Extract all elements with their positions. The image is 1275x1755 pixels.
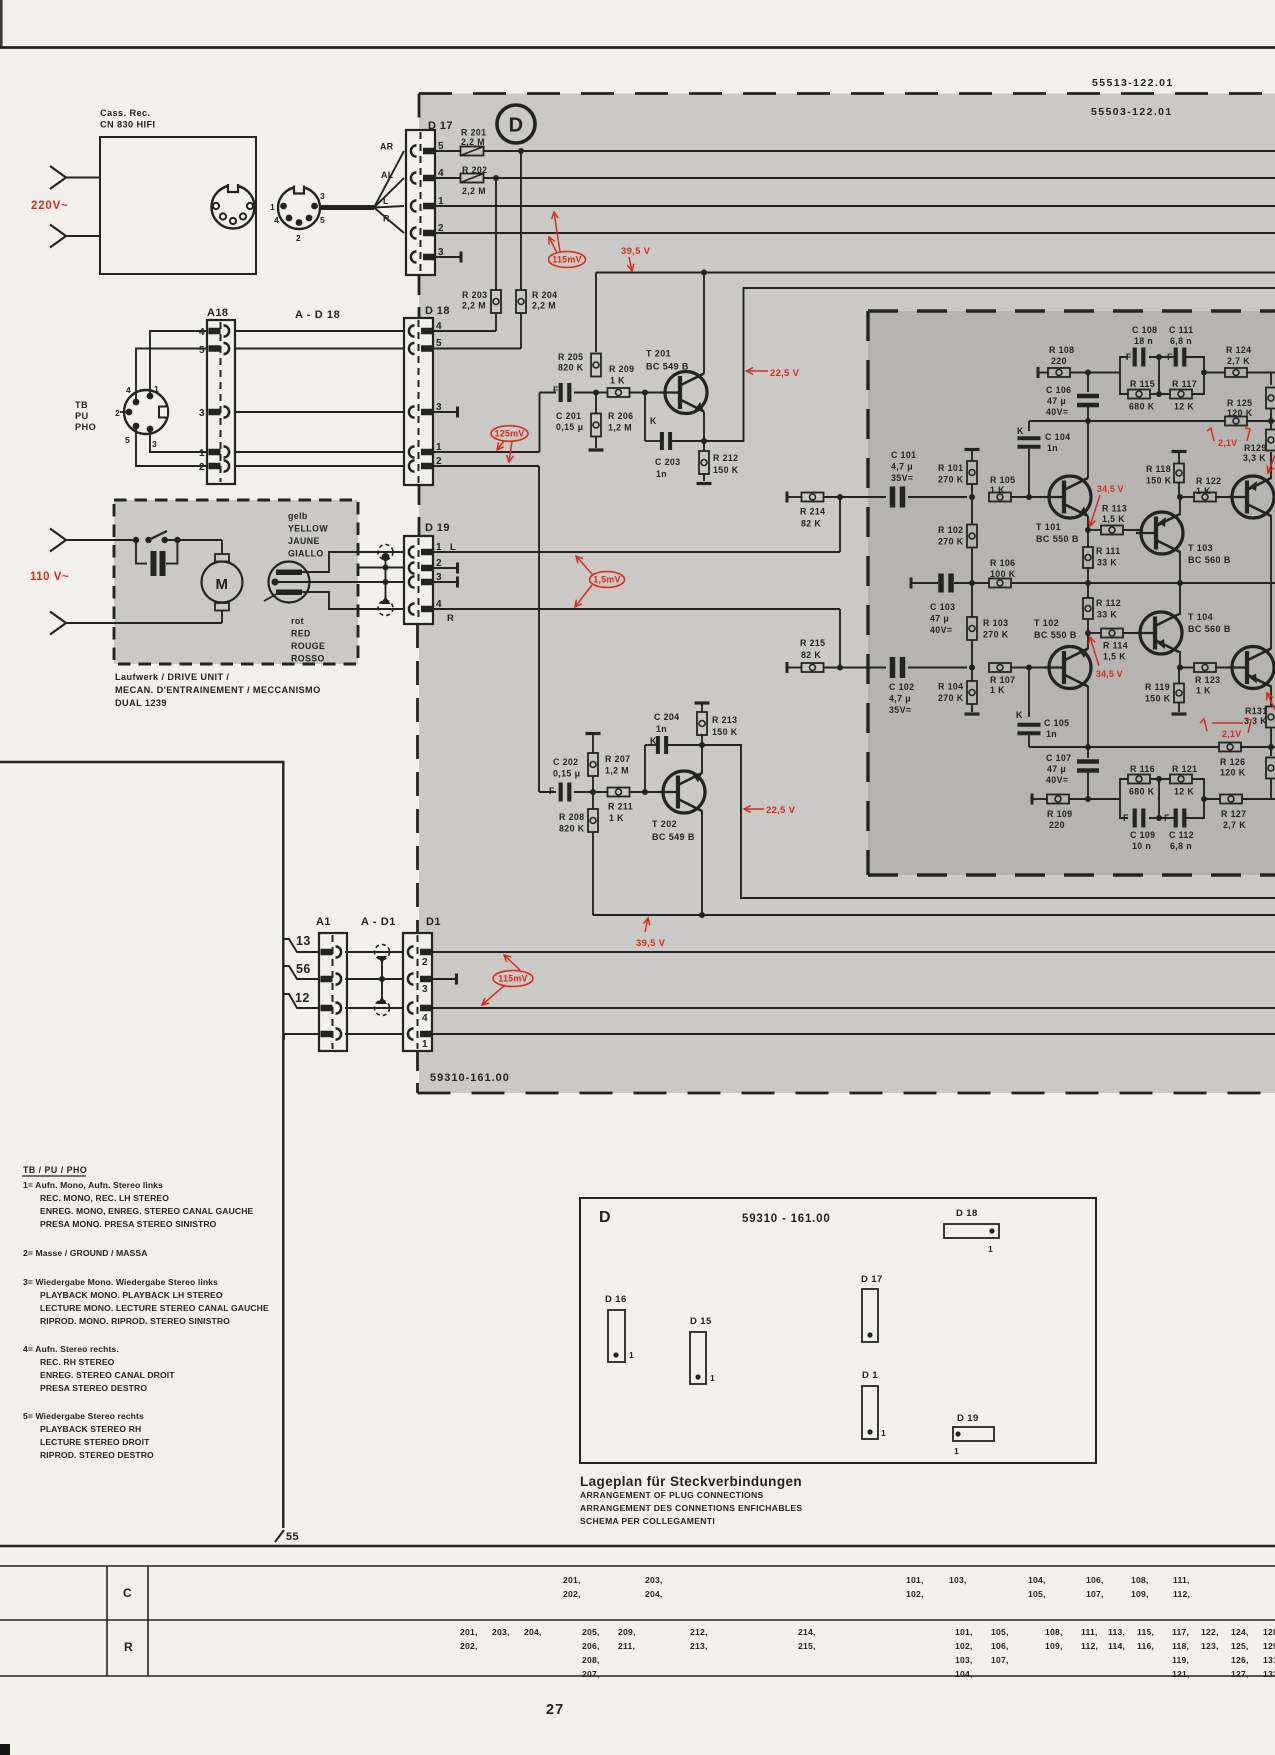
node on pin5 wire: [518, 148, 524, 154]
svg-text:103,: 103,: [949, 1575, 967, 1585]
svg-text:120 K: 120 K: [1227, 408, 1253, 418]
svg-text:1: 1: [199, 448, 205, 459]
svg-text:Lageplan für Steckverbindunge: Lageplan für Steckverbindungen: [580, 1474, 802, 1489]
svg-text:R 215: R 215: [800, 638, 825, 648]
svg-text:1 K: 1 K: [1196, 686, 1211, 696]
R213 150K from supply stub: [695, 701, 738, 745]
wire rail to T106: [1270, 583, 1272, 649]
2.1V upper callout: [1207, 428, 1275, 473]
svg-text:4: 4: [422, 1013, 428, 1024]
wire D1 pin2 out: [431, 951, 1275, 953]
cable shield symbol: [375, 945, 390, 1016]
wire 39.5V rail lower: [593, 914, 1275, 916]
phase capacitor across switch: [136, 540, 177, 576]
yellow lead: [302, 552, 404, 572]
EQ network wiring lower: [1120, 776, 1207, 821]
svg-text:Laufwerk / DRIVE UNIT /: Laufwerk / DRIVE UNIT /: [115, 672, 229, 682]
C203 1n: [645, 393, 704, 480]
C103 47u label: [930, 602, 955, 635]
svg-text:BC 550 B: BC 550 B: [1034, 630, 1077, 640]
C202 0.15u: [549, 757, 580, 802]
svg-text:L: L: [383, 196, 389, 206]
svg-text:3: 3: [152, 439, 157, 449]
R211 1K: [608, 788, 634, 824]
svg-text:209,: 209,: [618, 1627, 636, 1637]
C108 18n: [1126, 325, 1157, 367]
svg-text:R 117: R 117: [1172, 379, 1197, 389]
svg-text:PRESA MONO. PRESA STEREO SINI: PRESA MONO. PRESA STEREO SINISTRO: [40, 1219, 217, 1229]
svg-text:270 K: 270 K: [983, 630, 1009, 640]
DIN plug with pin numbers: [270, 185, 325, 243]
R122 1K: [1180, 476, 1234, 502]
svg-text:150 K: 150 K: [712, 727, 738, 737]
svg-text:BC 560 B: BC 560 B: [1188, 555, 1231, 565]
D18 pin3 stub: [433, 407, 459, 418]
svg-text:R 125: R 125: [1227, 398, 1252, 408]
svg-text:BC 560 B: BC 560 B: [1188, 624, 1231, 634]
svg-text:2,1V: 2,1V: [1218, 438, 1237, 448]
svg-text:106,: 106,: [1086, 1575, 1104, 1585]
pin3 stub with terminator: [433, 252, 463, 263]
svg-text:D1: D1: [426, 916, 441, 928]
svg-text:128,: 128,: [1263, 1627, 1275, 1637]
T202 BC549B: [652, 771, 705, 842]
svg-text:1,5 K: 1,5 K: [1102, 514, 1125, 524]
wire T201 emitter down: [703, 412, 705, 442]
motor switch: [114, 531, 222, 543]
D18 connector: [404, 305, 450, 485]
svg-text:124,: 124,: [1231, 1627, 1249, 1637]
svg-text:1,2 M: 1,2 M: [608, 423, 632, 433]
svg-text:K: K: [1017, 426, 1024, 436]
svg-text:1: 1: [988, 1244, 993, 1254]
svg-text:105,: 105,: [1028, 1589, 1046, 1599]
svg-text:110 V~: 110 V~: [30, 571, 69, 583]
svg-text:5: 5: [436, 338, 442, 349]
wire T106 emitter down: [1270, 686, 1272, 706]
svg-text:AL: AL: [381, 170, 394, 180]
svg-text:4,7 μ: 4,7 μ: [889, 694, 911, 704]
feedback rail: [910, 574, 1275, 593]
svg-text:PLAYBACK MONO. PLAYBACK LH STE: PLAYBACK MONO. PLAYBACK LH STEREO: [40, 1290, 223, 1300]
DIN socket symbol: [212, 184, 255, 229]
wire rail to T104 top: [1179, 583, 1181, 615]
svg-text:R 121: R 121: [1172, 764, 1197, 774]
right channel input wire: [433, 609, 840, 668]
svg-text:rot: rot: [291, 616, 304, 626]
svg-text:R 214: R 214: [800, 507, 825, 517]
svg-text:BC 550 B: BC 550 B: [1036, 534, 1079, 544]
svg-text:10 n: 10 n: [1132, 841, 1151, 851]
svg-text:C 101: C 101: [891, 450, 916, 460]
svg-text:A - D 18: A - D 18: [295, 309, 340, 321]
R121 12K: [1170, 764, 1197, 797]
wire T102 collector down: [1087, 686, 1089, 747]
svg-text:3: 3: [438, 247, 444, 258]
R104 270K to ground: [938, 668, 980, 716]
svg-text:3: 3: [422, 984, 428, 995]
svg-text:4: 4: [126, 385, 131, 395]
svg-text:R 207: R 207: [605, 754, 630, 764]
svg-text:108,: 108,: [1131, 1575, 1149, 1585]
svg-text:SCHEMA PER COLLEGAMENTI: SCHEMA PER COLLEGAMENTI: [580, 1516, 715, 1526]
svg-text:1 K: 1 K: [609, 813, 624, 823]
svg-text:R 109: R 109: [1047, 809, 1072, 819]
svg-text:2: 2: [422, 957, 428, 968]
svg-text:129,: 129,: [1263, 1641, 1275, 1651]
svg-text:R 114: R 114: [1103, 641, 1128, 651]
wire T102 emitter up: [1087, 633, 1089, 649]
svg-text:C 108: C 108: [1132, 325, 1157, 335]
drive unit dashed box: [114, 500, 358, 664]
svg-text:C 102: C 102: [889, 682, 914, 692]
svg-text:2,7 K: 2,7 K: [1227, 356, 1250, 366]
svg-text:3: 3: [320, 191, 325, 201]
svg-text:ENREG. STEREO CANAL DROIT: ENREG. STEREO CANAL DROIT: [40, 1370, 175, 1380]
C102 4.7u input cap R: [868, 657, 975, 715]
module dashed outline: [418, 94, 1275, 1094]
svg-text:112,: 112,: [1173, 1589, 1190, 1599]
svg-text:202,: 202,: [460, 1641, 478, 1651]
svg-text:1: 1: [270, 202, 275, 212]
svg-text:R 115: R 115: [1130, 379, 1155, 389]
R114 1.5K: [1088, 629, 1139, 662]
top page border line: [0, 46, 1275, 49]
svg-text:202,: 202,: [563, 1589, 581, 1599]
39.5V callout: [621, 246, 651, 271]
svg-text:1: 1: [954, 1446, 959, 1456]
R109 feed stub: [1031, 794, 1048, 805]
R202 2.2M on pin4 wire: [461, 165, 488, 196]
R101 270K: [938, 448, 980, 497]
R208 820K: [559, 792, 598, 915]
svg-text:R 204: R 204: [532, 290, 557, 300]
svg-text:1 K: 1 K: [1196, 486, 1211, 496]
TB PU PHO: [75, 400, 96, 432]
R113 1.5K: [1088, 504, 1140, 535]
svg-text:D 16: D 16: [605, 1294, 627, 1305]
svg-text:D 19: D 19: [425, 522, 450, 534]
bottom left page mark: [0, 1744, 10, 1755]
svg-text:1n: 1n: [656, 724, 667, 734]
svg-text:R 105: R 105: [990, 475, 1015, 485]
svg-text:220V~: 220V~: [31, 200, 69, 212]
T101 BC550B: [1036, 476, 1091, 544]
svg-text:203,: 203,: [492, 1627, 510, 1637]
node on pin4 wire: [493, 175, 499, 181]
svg-text:4: 4: [436, 321, 442, 332]
svg-text:111,: 111,: [1081, 1627, 1098, 1637]
svg-text:C 105: C 105: [1044, 718, 1069, 728]
T201 BC549B: [646, 349, 707, 414]
node R101 junction: [969, 494, 975, 500]
harness wires A18-D18: [235, 331, 404, 466]
svg-text:2: 2: [438, 223, 444, 234]
svg-text:K: K: [1016, 710, 1023, 720]
svg-text:39,5 V: 39,5 V: [636, 938, 666, 949]
svg-text:126,: 126,: [1231, 1655, 1249, 1665]
svg-text:D 17: D 17: [428, 120, 453, 132]
R119 150K: [1145, 668, 1187, 716]
cable fanout with AR AL L R labels: [320, 142, 404, 234]
wire D1 pin1 out: [431, 1033, 1275, 1035]
svg-text:1: 1: [881, 1428, 886, 1438]
svg-text:59310-161.00: 59310-161.00: [430, 1072, 510, 1084]
wire T103 emitter up: [1179, 497, 1181, 515]
svg-text:A - D1: A - D1: [361, 916, 396, 928]
svg-text:REC. RH STEREO: REC. RH STEREO: [40, 1357, 115, 1367]
svg-text:R 203: R 203: [462, 290, 487, 300]
svg-text:A1: A1: [316, 916, 331, 928]
svg-text:33 K: 33 K: [1097, 610, 1117, 620]
svg-text:680 K: 680 K: [1129, 787, 1155, 797]
svg-text:33 K: 33 K: [1097, 558, 1117, 568]
svg-text:LECTURE MONO. LECTURE STEREO: LECTURE MONO. LECTURE STEREO CANAL GAUCH…: [40, 1303, 269, 1313]
motor with brushes: [114, 540, 243, 623]
R212 150K to ground: [697, 441, 739, 485]
R108 feed stub: [1037, 367, 1049, 378]
svg-text:2,2 M: 2,2 M: [461, 137, 485, 147]
R108 220: [1048, 345, 1120, 377]
svg-text:C 112: C 112: [1169, 830, 1194, 840]
svg-text:YELLOW: YELLOW: [288, 524, 328, 534]
svg-text:34,5 V: 34,5 V: [1097, 484, 1124, 494]
svg-text:40V=: 40V=: [1046, 407, 1068, 417]
svg-text:13: 13: [296, 934, 311, 948]
svg-text:208,: 208,: [582, 1655, 600, 1665]
svg-text:820 K: 820 K: [558, 363, 584, 373]
svg-text:107,: 107,: [1086, 1589, 1104, 1599]
svg-text:123,: 123,: [1201, 1641, 1219, 1651]
svg-text:12 K: 12 K: [1174, 787, 1194, 797]
svg-text:3,3 K: 3,3 K: [1243, 453, 1266, 463]
R129 3.3K: [1243, 421, 1275, 463]
svg-text:207,: 207,: [582, 1669, 600, 1679]
svg-text:R 206: R 206: [608, 411, 633, 421]
C201 0.15u: [553, 383, 583, 432]
svg-text:F: F: [549, 786, 555, 796]
C107 47u: [1046, 747, 1099, 799]
svg-text:212,: 212,: [690, 1627, 708, 1637]
svg-text:C 106: C 106: [1046, 385, 1071, 395]
svg-text:201,: 201,: [563, 1575, 581, 1585]
svg-text:0,15 μ: 0,15 μ: [553, 769, 580, 779]
wire R211 to T202 base: [629, 791, 678, 793]
svg-text:C 111: C 111: [1169, 325, 1194, 335]
svg-text:101,: 101,: [906, 1575, 924, 1585]
net 55 label: [286, 1531, 299, 1543]
plug plan captions: [580, 1474, 802, 1526]
svg-text:ROSSO: ROSSO: [291, 654, 325, 664]
wire T201 collector to rail: [703, 273, 705, 374]
svg-text:5: 5: [320, 215, 325, 225]
svg-text:F: F: [1167, 352, 1173, 362]
svg-text:6,8 n: 6,8 n: [1170, 841, 1192, 851]
R105 1K: [989, 475, 1050, 502]
220V label: [31, 200, 69, 212]
svg-text:2= Masse / GROUND / MASSA: 2= Masse / GROUND / MASSA: [23, 1248, 148, 1258]
R201 2.2M on pin5 wire: [461, 128, 487, 156]
R131 3.3K: [1244, 705, 1275, 750]
svg-text:270 K: 270 K: [938, 475, 964, 485]
A1 pin labels: [295, 934, 311, 1005]
R124 2.7K: [1204, 345, 1275, 377]
svg-text:4,7 μ: 4,7 μ: [891, 462, 913, 472]
R116 680K: [1128, 764, 1155, 797]
svg-text:115mV: 115mV: [498, 974, 528, 984]
svg-text:R 205: R 205: [558, 352, 583, 362]
1.5mV callout: [575, 556, 625, 607]
svg-text:119,: 119,: [1172, 1655, 1189, 1665]
svg-text:JAUNE: JAUNE: [288, 536, 320, 546]
svg-text:122,: 122,: [1201, 1627, 1219, 1637]
svg-text:4: 4: [438, 168, 444, 179]
125mV callout: [491, 426, 528, 462]
left channel input wire: [433, 497, 840, 552]
svg-text:150 K: 150 K: [1146, 476, 1172, 486]
svg-text:3= Wiedergabe Mono. Wiedergabe: 3= Wiedergabe Mono. Wiedergabe Stereo li…: [23, 1277, 218, 1287]
svg-text:R: R: [447, 613, 454, 624]
T105 output left: [1227, 476, 1274, 518]
svg-text:R 103: R 103: [983, 618, 1008, 628]
shield symbol at D19: [357, 545, 404, 616]
svg-text:C 107: C 107: [1046, 753, 1071, 763]
D19 pin2 stub: [433, 563, 459, 574]
svg-text:R 102: R 102: [938, 525, 963, 535]
svg-text:3: 3: [199, 408, 205, 419]
A1 connector: [316, 916, 347, 1051]
plug location plan: [580, 1198, 1096, 1463]
svg-text:22,5 V: 22,5 V: [766, 805, 796, 816]
svg-text:125mV: 125mV: [494, 429, 524, 439]
inner amplifier board dark gray background: [868, 311, 1275, 875]
border of neighbouring schematic section: [0, 762, 285, 1542]
svg-text:204,: 204,: [524, 1627, 542, 1637]
wire T101 emitter down: [1087, 516, 1089, 530]
wire D18 pin5 to R204 column: [431, 348, 521, 350]
R127 2.7K: [1204, 795, 1275, 831]
svg-text:102,: 102,: [955, 1641, 973, 1651]
svg-text:D 15: D 15: [690, 1316, 712, 1327]
svg-text:201,: 201,: [460, 1627, 478, 1637]
svg-text:2: 2: [436, 456, 442, 467]
svg-text:104,: 104,: [1028, 1575, 1046, 1585]
T102 BC550B: [1034, 618, 1091, 689]
svg-text:ROUGE: ROUGE: [291, 641, 325, 651]
svg-text:RED: RED: [291, 629, 311, 639]
svg-text:T 201: T 201: [646, 349, 671, 359]
svg-text:C 203: C 203: [655, 457, 680, 467]
svg-text:2,2 M: 2,2 M: [462, 301, 486, 311]
edge resistor to rail: [1266, 373, 1275, 425]
EQ network wiring upper: [1120, 354, 1207, 397]
svg-text:270 K: 270 K: [938, 693, 964, 703]
svg-text:A18: A18: [207, 307, 228, 319]
svg-text:R 122: R 122: [1196, 476, 1221, 486]
svg-text:82 K: 82 K: [801, 650, 821, 660]
svg-text:56: 56: [296, 962, 311, 976]
svg-text:T 103: T 103: [1188, 543, 1213, 553]
wire T105 emitter column: [1270, 452, 1272, 479]
svg-text:R: R: [124, 1640, 133, 1654]
T106 output right: [1227, 647, 1274, 689]
svg-text:203,: 203,: [645, 1575, 663, 1585]
svg-text:T 102: T 102: [1034, 618, 1059, 628]
svg-text:106,: 106,: [991, 1641, 1009, 1651]
svg-text:59310 - 161.00: 59310 - 161.00: [742, 1213, 831, 1225]
R103 270K: [967, 583, 1009, 668]
svg-text:82 K: 82 K: [801, 519, 821, 529]
svg-text:12 K: 12 K: [1174, 402, 1194, 412]
svg-text:T 101: T 101: [1036, 522, 1061, 532]
T104 BC560B: [1135, 612, 1231, 654]
svg-text:D 18: D 18: [956, 1208, 978, 1219]
svg-text:131,: 131,: [1263, 1655, 1275, 1665]
svg-text:K: K: [650, 736, 657, 746]
svg-text:680 K: 680 K: [1129, 402, 1155, 412]
R115 680K: [1128, 379, 1155, 412]
svg-text:D 1: D 1: [862, 1370, 878, 1381]
svg-text:R 211: R 211: [608, 802, 633, 812]
wire D1 pin4 out: [431, 1007, 1275, 1009]
svg-text:R: R: [383, 214, 390, 224]
wire C202 to R211 junction: [574, 791, 608, 793]
svg-text:150 K: 150 K: [1145, 694, 1171, 704]
wire T104 collector down: [1179, 651, 1181, 668]
red lead: [302, 592, 404, 609]
svg-text:1= Aufn. Mono, Aufn. Stereo li: 1= Aufn. Mono, Aufn. Stereo links: [23, 1180, 163, 1190]
220V input arrows and wires: [50, 166, 100, 248]
svg-text:204,: 204,: [645, 1589, 663, 1599]
svg-text:215,: 215,: [798, 1641, 816, 1651]
svg-text:100 K: 100 K: [990, 569, 1016, 579]
wire D17 pin2 line R: [433, 232, 1275, 234]
svg-text:35V=: 35V=: [889, 705, 911, 715]
D1 pin3 stub: [431, 974, 458, 985]
svg-text:PHO: PHO: [75, 422, 96, 432]
svg-text:D: D: [599, 1209, 611, 1226]
svg-text:121,: 121,: [1172, 1669, 1190, 1679]
svg-text:1,5 K: 1,5 K: [1103, 652, 1126, 662]
D17 connector: [406, 120, 453, 275]
svg-text:D 17: D 17: [861, 1274, 883, 1285]
mid feedback rail lower with R126 120K: [1029, 743, 1275, 778]
svg-text:R 208: R 208: [559, 812, 584, 822]
svg-text:R 119: R 119: [1145, 682, 1170, 692]
module area light gray background 55503-122.01: [419, 94, 1275, 1094]
R206 1.2M to ground: [589, 393, 634, 452]
svg-text:RIPROD. MONO. RIPROD. STEREO: RIPROD. MONO. RIPROD. STEREO SINISTRO: [40, 1316, 230, 1326]
115mV upper callout: [549, 212, 586, 268]
svg-text:Cass. Rec.: Cass. Rec.: [100, 108, 150, 118]
wire T101 collector up: [1087, 421, 1089, 478]
svg-text:1 K: 1 K: [990, 485, 1005, 495]
svg-text:104,: 104,: [955, 1669, 973, 1679]
svg-text:T 202: T 202: [652, 819, 677, 829]
R118 150K: [1146, 450, 1187, 497]
svg-text:12: 12: [295, 991, 310, 1005]
wire node pin5 down to R204: [520, 151, 522, 291]
svg-text:4= Aufn. Stereo rechts.: 4= Aufn. Stereo rechts.: [23, 1344, 119, 1354]
svg-text:101,: 101,: [955, 1627, 973, 1637]
svg-text:55513-122.01: 55513-122.01: [1092, 77, 1174, 89]
svg-text:F: F: [1126, 352, 1132, 362]
C106 47u: [1046, 373, 1099, 425]
svg-text:C 204: C 204: [654, 712, 679, 722]
svg-text:R 202: R 202: [462, 165, 487, 175]
R102 270K: [938, 497, 977, 583]
svg-text:T 104: T 104: [1188, 612, 1213, 622]
